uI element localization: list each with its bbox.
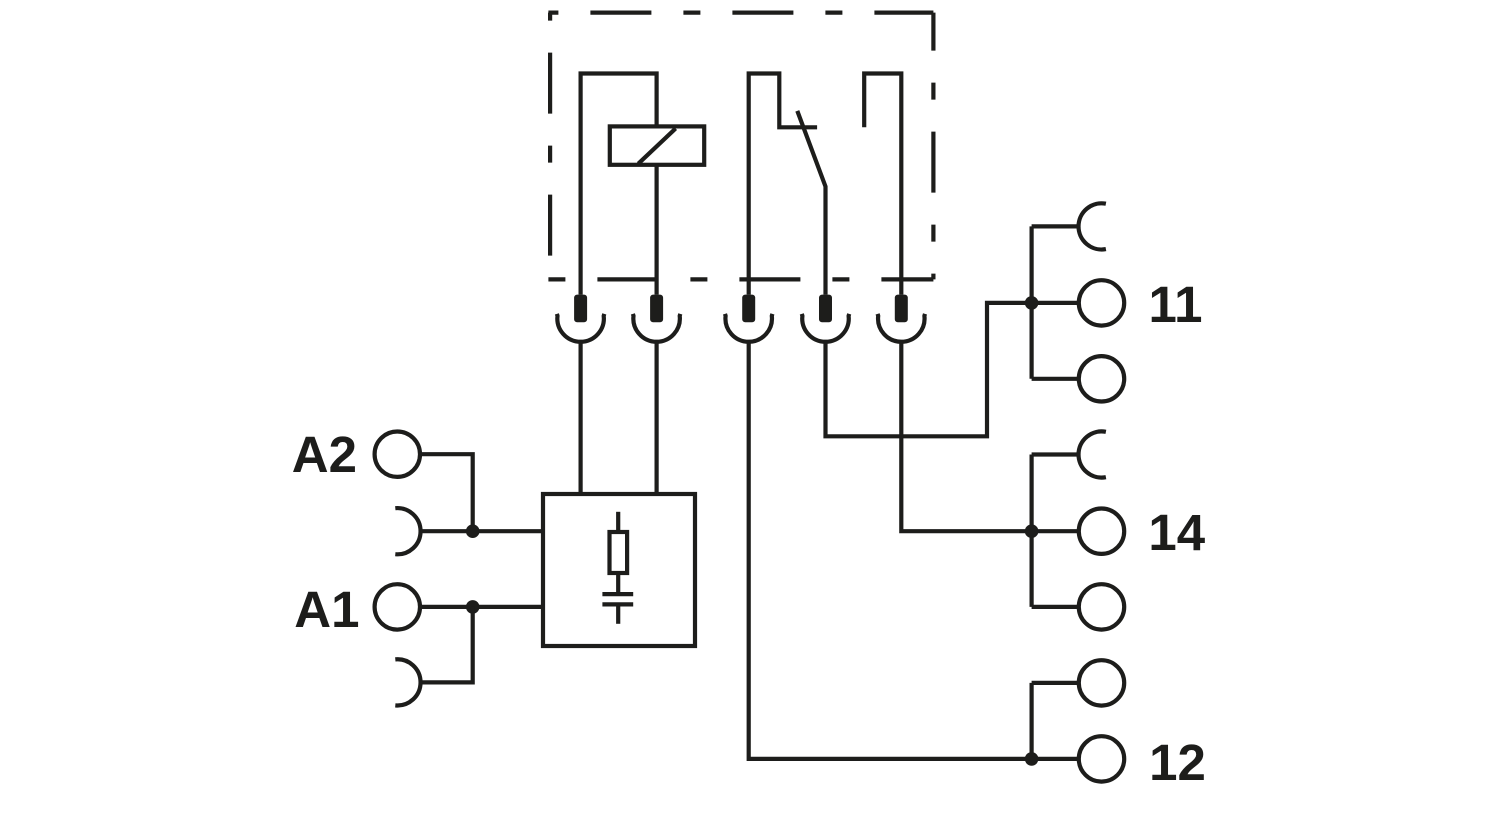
resistor lead top (616, 512, 620, 532)
wire junction down to lower socket (421, 607, 473, 683)
RC suppressor box (543, 494, 695, 646)
branch to circle 11 low (1032, 377, 1079, 381)
coil diagonal stroke (638, 129, 675, 164)
capacitor plate 2 (602, 602, 633, 606)
bus group 11 (1029, 226, 1033, 378)
resistor R (610, 532, 628, 573)
plug pin contact 3 (725, 295, 772, 342)
plug pin contact 2 (633, 295, 680, 342)
resistor-capacitor lead (616, 573, 620, 592)
wire coil bottom to pin2 (654, 165, 658, 295)
wire pin1 to RC box (578, 342, 582, 494)
terminal circle 12 low (1079, 736, 1124, 781)
svg-text:12: 12 (1149, 734, 1206, 791)
terminal circle 14 low (1079, 584, 1124, 629)
wire upper socket to RC box (421, 529, 543, 533)
branch to circle 14 low (1032, 605, 1079, 609)
wire coil loop pin1 up across down (581, 74, 657, 295)
junction A2 (466, 524, 480, 538)
switch moving blade (797, 111, 825, 295)
wire pin5 to terminal 14 (901, 342, 1079, 532)
plug pin contact 1 (557, 295, 604, 342)
terminal circle 14 mid (1079, 509, 1124, 554)
module outline dash-dot bottom (548, 277, 933, 281)
terminal A2 circle (375, 432, 420, 477)
wire pin3 to terminal 12 (749, 342, 1079, 759)
capacitor plate 1 (602, 592, 633, 596)
branch to socket 14 (1032, 452, 1079, 456)
junction 14 (1025, 524, 1039, 538)
plug pin contact 5 (878, 295, 925, 342)
junction A1 (466, 600, 480, 614)
junction 12 (1025, 752, 1039, 766)
svg-text:11: 11 (1149, 276, 1203, 333)
wire pin2 to RC box (654, 342, 658, 494)
bus group 12 (1029, 683, 1033, 759)
bus group 14 (1029, 455, 1033, 607)
plug pin contact 4 (802, 295, 849, 342)
branch to circle 12 top (1032, 681, 1079, 685)
terminal circle 11 mid (1079, 280, 1124, 325)
wire A2 to junction (420, 454, 473, 531)
module outline dash-dot right (931, 13, 935, 280)
branch to socket 11 (1032, 224, 1079, 228)
wire pin4 to terminal 11 (826, 303, 1079, 436)
terminal circle 11 low (1079, 356, 1124, 401)
wire A1 to RC box (420, 605, 543, 609)
socket half-circle lower left (395, 659, 420, 705)
module outline dash-dot left (548, 13, 552, 280)
svg-text:A1: A1 (294, 581, 359, 638)
svg-text:A2: A2 (292, 426, 357, 483)
svg-text:14: 14 (1148, 504, 1205, 561)
module outline dash-dot top (548, 11, 933, 15)
terminal circle 12 top (1079, 660, 1124, 705)
junction 11 (1025, 296, 1039, 310)
terminal A1 circle (375, 584, 420, 629)
socket half-circle upper left (395, 508, 420, 554)
capacitor lead bottom (616, 606, 620, 623)
wire NO stub hook (864, 74, 901, 295)
socket half-circle 11 (1079, 203, 1106, 249)
socket half-circle 14 (1079, 431, 1106, 477)
relay coil K1 (610, 126, 704, 164)
wire switch common pin3 up with fixed contact (749, 74, 817, 295)
